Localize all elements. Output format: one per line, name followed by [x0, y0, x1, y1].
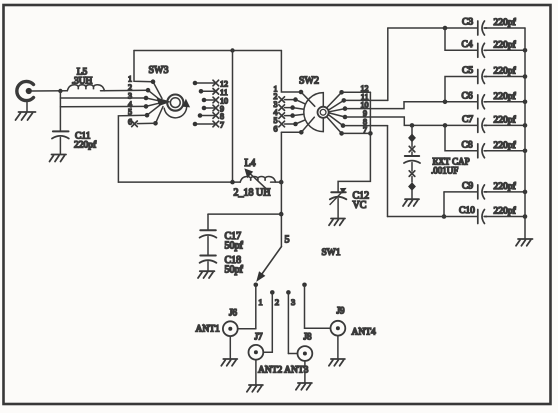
junction input/C11: [58, 89, 62, 93]
connector J6: [223, 321, 238, 336]
svg-text:11: 11: [220, 88, 228, 97]
svg-text:3: 3: [291, 297, 295, 307]
rotary switch SW2 rotor (half-moon): [301, 92, 329, 132]
wire: branch down from input junction: [59, 91, 61, 131]
SW2 left open contact X marks (pins 2-6): [279, 97, 285, 127]
svg-text:J9: J9: [336, 306, 345, 316]
capacitor C3: [478, 21, 487, 35]
svg-text:VC: VC: [353, 200, 367, 211]
junction rail / pin7: [368, 131, 373, 136]
SW2 left fan wires: [293, 100, 306, 124]
ground (C12): [329, 219, 345, 226]
capacitor C9: [478, 185, 487, 199]
svg-text:220pf: 220pf: [494, 17, 517, 28]
capacitor C8: [478, 144, 487, 158]
wire: rail vertical (pins 12/7 tie, to C12): [338, 92, 370, 191]
svg-text:7: 7: [220, 121, 224, 130]
wire: C10 to right bus: [486, 216, 525, 218]
wire: SW2 pin9 row to C7/C8: [345, 117, 477, 125]
wire: post1 to J6: [238, 328, 256, 330]
ground (capacitor bank): [516, 239, 533, 246]
svg-text:6: 6: [128, 118, 132, 127]
svg-text:220pf: 220pf: [494, 91, 517, 102]
wire: C9 to right bus: [486, 191, 525, 193]
SW2 left contact stubs: [281, 100, 301, 133]
wire: C17 feed drop: [207, 214, 209, 230]
wire: post2 to J7: [264, 351, 273, 353]
svg-text:C9: C9: [462, 181, 473, 191]
junction C5/C6 tie: [443, 100, 448, 105]
junction C10 right: [523, 214, 528, 219]
connector J8: [298, 346, 313, 361]
wire: C9 row: [444, 191, 477, 193]
wire: bottom bus to L4: [118, 181, 240, 183]
SW3 right floating stubs with dots and X (pins 12-7): [195, 83, 216, 124]
wire: top bus SW3 pin1 to SW2 pin1: [134, 50, 281, 52]
external capacitor branch EXT CAP: [404, 125, 420, 198]
wire: top bus drop to SW2 pin1: [281, 51, 301, 93]
junction C6 right: [523, 100, 528, 105]
junction C7 right: [523, 123, 528, 128]
wire: bus up to C3/C4: [387, 28, 389, 100]
wire: C7 to right bus: [486, 124, 525, 126]
wire: post4 to J9: [305, 327, 331, 329]
SW3 left contact dots: [144, 79, 158, 125]
wire: C4 tie drop: [445, 28, 477, 50]
connector J7: [249, 345, 264, 360]
junction L4 right terminal: [279, 180, 284, 185]
wire: SW3 pin5 to left rail: [118, 115, 147, 182]
wire: C6 to right bus: [486, 101, 525, 103]
svg-text:ANT1: ANT1: [196, 325, 221, 335]
ground (J9): [329, 336, 345, 366]
svg-text:220pf: 220pf: [494, 140, 517, 151]
wire: C5 tie rise: [445, 77, 477, 102]
svg-text:50pf: 50pf: [225, 241, 244, 252]
wire: branch to C17: [208, 213, 281, 215]
svg-text:J6: J6: [229, 308, 238, 318]
junction top bus to L4: [230, 48, 234, 52]
junction C7/C8 tie: [443, 123, 448, 128]
wire: SW2 pin12 stub to rail: [342, 91, 371, 93]
SW1 contact post 3: [286, 290, 291, 353]
junction C9 right: [523, 190, 528, 195]
junction EXT CAP tap: [410, 123, 415, 128]
junction C8 right: [523, 149, 528, 154]
svg-text:C6: C6: [462, 91, 473, 101]
svg-text:J7: J7: [254, 332, 263, 342]
wire: vertical L4 feed: [232, 51, 234, 183]
svg-text:2: 2: [275, 297, 279, 307]
wire: SW3 pin6 stub: [137, 122, 155, 124]
wire: SW2 pin11 row to C3/C4 bus: [344, 99, 388, 101]
SW2 right contact dots: [339, 90, 347, 136]
SW3 left contact fan wires: [146, 82, 163, 124]
SW2 right fan wires: [327, 92, 346, 133]
svg-text:5: 5: [285, 235, 290, 246]
capacitor C5: [478, 70, 487, 84]
capacitor C10: [478, 210, 487, 224]
svg-text:2_18 UH: 2_18 UH: [234, 188, 271, 199]
junction C17 branch: [279, 212, 284, 217]
wire: L5 to SW3 pin2: [101, 89, 149, 92]
wire: C8 to right bus: [486, 150, 525, 152]
wire: C3 row: [388, 27, 478, 29]
wire: C5 to right bus: [486, 76, 525, 78]
junction C3/C4 tie: [443, 26, 448, 31]
ground (J8): [296, 361, 312, 390]
SW1 contact post 1: [254, 283, 259, 329]
svg-text:SW2: SW2: [299, 76, 319, 87]
junction L4 left terminal: [230, 180, 235, 185]
wire: input to L5: [32, 90, 67, 92]
wire: SW2 pin10 row to C5/C6: [345, 102, 477, 109]
junction C4 right: [523, 48, 528, 53]
ground (input connector): [16, 101, 36, 121]
capacitor C6: [478, 95, 487, 109]
ground (EXT CAP): [403, 199, 419, 206]
svg-text:C3: C3: [462, 18, 473, 28]
connector J9: [331, 321, 346, 336]
junction C5 right: [523, 74, 528, 79]
svg-text:220pf: 220pf: [74, 140, 97, 151]
rotary switch SW3 rotor: [157, 95, 189, 118]
open contact X (SW3 pin6): [132, 121, 138, 127]
inductor L4 (variable): [240, 169, 275, 191]
variable capacitor C12: [330, 188, 347, 218]
capacitor C17: [200, 230, 217, 255]
wire: SW2 pin7 stub to rail: [342, 132, 371, 134]
ground (C11): [50, 155, 67, 162]
connector J-input coax: [17, 81, 34, 100]
svg-text:C10: C10: [459, 206, 475, 216]
wire: main vertical node (SW2 pin6 / L4 / C17 / wiper): [280, 132, 282, 246]
wire: right ground bus: [524, 28, 526, 239]
svg-text:.001UF: .001UF: [431, 166, 458, 176]
wire: C3 to right bus: [486, 27, 525, 29]
wire: bus down to C10: [387, 126, 389, 217]
capacitor C4: [478, 43, 487, 57]
ground (J7): [247, 360, 263, 392]
wire: L4 right terminal stub: [271, 181, 282, 183]
ground (C18): [198, 271, 214, 278]
svg-text:6: 6: [274, 125, 278, 134]
wire: SW2 pin8 row to C9/C10 bus: [343, 125, 388, 127]
svg-text:ANT2 ANT3: ANT2 ANT3: [258, 366, 309, 376]
svg-text:ANT4: ANT4: [352, 328, 377, 338]
capacitor C7: [478, 118, 487, 132]
svg-text:J8: J8: [303, 332, 312, 342]
wire: C9 tie drop: [443, 192, 445, 217]
svg-text:1: 1: [258, 297, 262, 307]
wire: C4 to right bus: [486, 49, 525, 51]
junction C9/C10 tie: [442, 214, 447, 219]
svg-text:220pf: 220pf: [494, 181, 517, 192]
wire: vertical drop to SW3 pin1: [134, 51, 153, 82]
wire: branch to SW3 pin4: [60, 105, 146, 107]
svg-text:220pf: 220pf: [494, 39, 517, 50]
svg-text:C4: C4: [462, 40, 473, 50]
ground (J6): [221, 336, 237, 366]
SW1 contact post 4: [302, 283, 307, 329]
svg-text:SW3: SW3: [149, 65, 169, 76]
switch SW1 wiper arm: [257, 247, 281, 281]
svg-text:L4: L4: [244, 158, 255, 169]
wire: C10 row: [388, 216, 478, 218]
SW2 left contact dots: [290, 90, 303, 135]
capacitor C18: [200, 256, 217, 271]
svg-text:220pf: 220pf: [494, 114, 517, 125]
capacitor C11: [52, 131, 69, 154]
wire: post3 to J8: [288, 353, 297, 355]
svg-text:C7: C7: [462, 115, 473, 125]
wire: branch to SW3 pin3: [60, 97, 146, 99]
svg-text:50pf: 50pf: [225, 265, 244, 276]
svg-text:220pf: 220pf: [494, 206, 517, 217]
svg-text:SW1: SW1: [322, 248, 341, 258]
inductor L5: [67, 85, 104, 91]
wire: C8 tie drop: [445, 125, 477, 150]
svg-text:.3UH: .3UH: [72, 77, 93, 87]
svg-text:C8: C8: [462, 140, 473, 150]
svg-text:C5: C5: [462, 66, 473, 76]
SW1 contact post 2: [270, 290, 275, 352]
svg-text:220pf: 220pf: [494, 66, 517, 77]
